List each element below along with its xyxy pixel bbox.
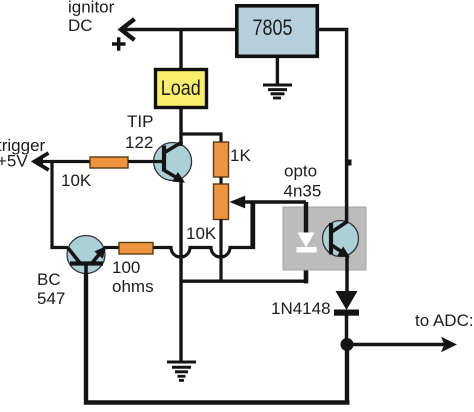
wire: Load to TIP122 collector node	[179, 109, 182, 146]
wire: opto LED anode lead	[304, 202, 308, 234]
wire: preset bottom lead	[219, 219, 222, 281]
ground (7805)	[263, 85, 292, 98]
wire: 7805 output rail to opto collector	[316, 30, 347, 223]
LED inside opto (cathode bar)	[297, 247, 317, 253]
label: + (DC positive)	[112, 37, 126, 50]
svg-text:1N4148: 1N4148	[271, 299, 331, 318]
wire: opto emitter to 1N4148 anode	[345, 255, 349, 292]
arrow: preset wiper (points left)	[230, 196, 246, 209]
svg-text:Load: Load	[161, 77, 201, 100]
svg-text:DC: DC	[68, 16, 93, 35]
transistor BC547	[67, 236, 106, 275]
svg-text:+5V: +5V	[0, 152, 28, 171]
transistor TIP122	[153, 142, 192, 183]
diode 1N4148	[336, 291, 358, 310]
wire: TIP122 emitter to ground rail	[179, 180, 182, 362]
optocoupler 4n35 body	[283, 207, 366, 270]
wire: diode cathode to ADC node	[345, 315, 349, 344]
wire: ignitor DC top rail	[124, 28, 236, 32]
wire: preset wiper to opto LED anode	[243, 200, 306, 204]
svg-text:7805: 7805	[253, 15, 293, 40]
wire: 10K to TIP122 base	[128, 160, 154, 163]
wire: to ADC	[352, 343, 445, 346]
wire: opto LED cathode rail	[304, 250, 309, 283]
svg-text:100: 100	[112, 258, 140, 277]
wire: wiper node drop	[250, 202, 253, 248]
svg-text:ohms: ohms	[112, 277, 154, 296]
node: ADC junction	[341, 338, 354, 351]
arrow: trigger input (points left)	[35, 153, 49, 170]
svg-text:547: 547	[37, 289, 65, 308]
resistor 100 ohms	[119, 243, 153, 255]
wire: BC547 emitter to 100 ohms	[104, 246, 119, 249]
potentiometer 10K (preset)	[214, 184, 229, 220]
load block	[156, 70, 207, 108]
svg-text:TIP: TIP	[127, 112, 153, 131]
wire: trigger drop to BC547	[52, 162, 68, 248]
svg-text:ignitor: ignitor	[68, 0, 115, 17]
resistor 1K	[214, 142, 229, 177]
wire: 1K to 10K preset	[219, 177, 222, 185]
wire: top rail drop to Load	[179, 30, 182, 70]
resistor 10K (trigger)	[90, 157, 128, 168]
svg-text:122: 122	[125, 133, 153, 152]
arrow: ignitor DC input (points left)	[121, 19, 135, 40]
svg-text:1K: 1K	[230, 146, 251, 165]
opto transistor	[323, 221, 359, 258]
svg-text:10K: 10K	[61, 171, 92, 190]
svg-text:10K: 10K	[186, 224, 217, 243]
wire: TIP122 collector riser	[179, 141, 182, 146]
ground (main)	[167, 362, 196, 380]
wire: lower rail with hop-overs	[153, 202, 254, 257]
regulator 7805	[237, 6, 317, 57]
svg-text:4n35: 4n35	[284, 182, 322, 201]
LED inside opto (anode triangle)	[298, 233, 315, 248]
svg-text:BC: BC	[37, 270, 61, 289]
wire: 7805 ground lead	[276, 57, 279, 85]
wire: trigger rail (left of 10K)	[36, 160, 90, 163]
arrow: to ADC (points right)	[441, 337, 457, 352]
wire: collector node to 1K top	[180, 134, 222, 143]
wire: bottom return rail	[84, 272, 350, 404]
svg-text:opto: opto	[284, 162, 317, 181]
node: stray junction blob on output rail	[346, 160, 352, 166]
svg-text:to ADC:: to ADC:	[415, 311, 474, 330]
